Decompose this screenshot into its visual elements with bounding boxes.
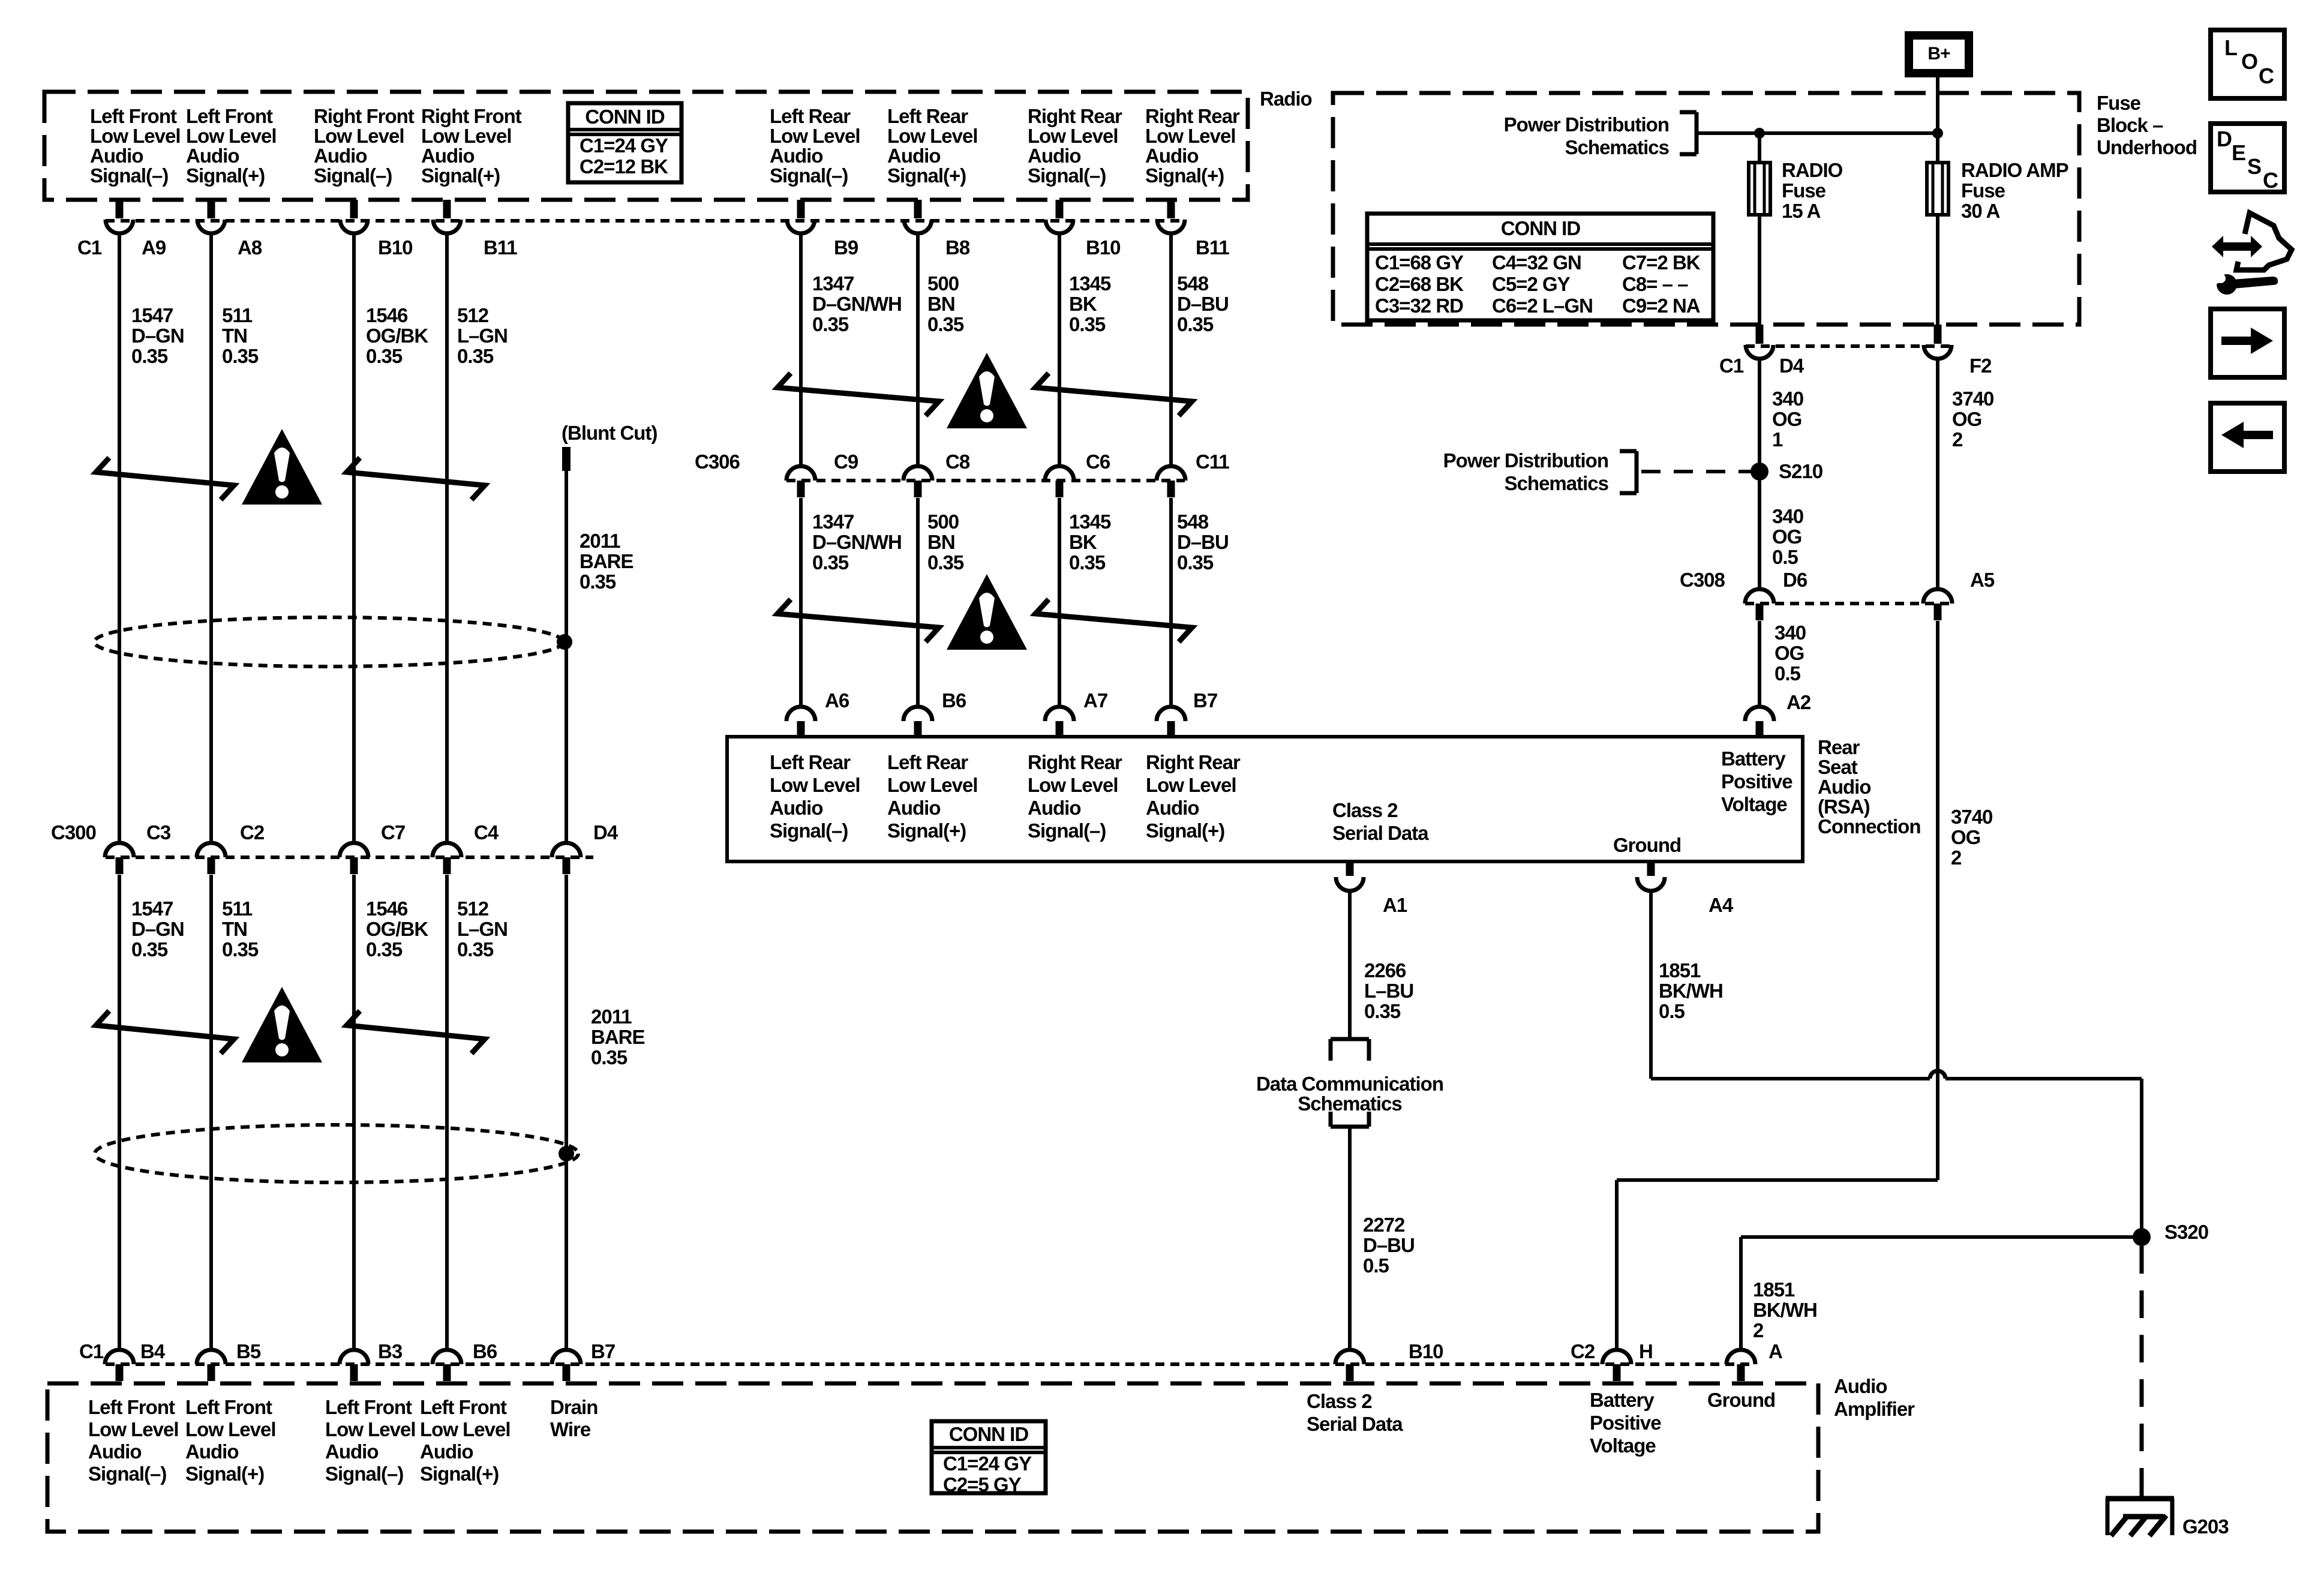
svg-text:1345: 1345 [1069, 511, 1111, 533]
svg-text:C1: C1 [1719, 355, 1744, 377]
svg-text:OG: OG [1952, 408, 1981, 430]
svg-text:Serial Data: Serial Data [1332, 822, 1429, 844]
svg-text:B7: B7 [591, 1340, 615, 1362]
svg-text:Low Level: Low Level [186, 125, 277, 147]
svg-text:C7=2 BK: C7=2 BK [1622, 251, 1701, 274]
svg-text:Audio: Audio [420, 1440, 473, 1463]
svg-text:Low Level: Low Level [420, 1418, 511, 1440]
svg-text:0.35: 0.35 [131, 345, 168, 367]
svg-text:Positive: Positive [1721, 770, 1792, 792]
svg-text:Left Front: Left Front [186, 105, 273, 127]
svg-text:D–GN/WH: D–GN/WH [812, 531, 902, 553]
svg-text:BARE: BARE [591, 1026, 645, 1048]
svg-text:2011: 2011 [580, 530, 620, 552]
svg-text:C2: C2 [1571, 1340, 1595, 1362]
svg-text:Block –: Block – [2097, 114, 2163, 136]
svg-text:Signal(–): Signal(–) [1028, 164, 1106, 187]
svg-text:Drain: Drain [550, 1396, 597, 1418]
svg-text:Fuse: Fuse [2097, 92, 2141, 114]
svg-text:L–GN: L–GN [457, 325, 508, 347]
svg-text:B10: B10 [378, 236, 413, 259]
svg-text:Audio: Audio [1818, 776, 1870, 798]
svg-text:30 A: 30 A [1961, 200, 2000, 222]
svg-text:Schematics: Schematics [1565, 136, 1669, 158]
svg-text:D–GN: D–GN [131, 325, 184, 347]
svg-text:D6: D6 [1783, 569, 1807, 591]
svg-text:O: O [2241, 49, 2257, 74]
svg-text:Signal(+): Signal(+) [186, 164, 265, 187]
svg-text:0.35: 0.35 [812, 551, 849, 574]
svg-text:Signal(+): Signal(+) [421, 164, 500, 187]
svg-text:512: 512 [457, 897, 489, 920]
svg-text:Audio: Audio [185, 1440, 238, 1463]
svg-text:Signal(+): Signal(+) [887, 164, 966, 187]
svg-text:Voltage: Voltage [1721, 793, 1787, 815]
svg-text:C7: C7 [381, 821, 405, 843]
svg-text:Voltage: Voltage [1590, 1434, 1656, 1457]
svg-text:Right Front: Right Front [421, 105, 522, 127]
svg-text:2: 2 [1951, 846, 1962, 869]
svg-text:BN: BN [927, 531, 955, 553]
svg-text:C300: C300 [51, 821, 96, 843]
svg-text:Audio: Audio [887, 797, 940, 819]
svg-text:Low Level: Low Level [325, 1418, 416, 1440]
svg-text:D–GN/WH: D–GN/WH [812, 293, 902, 315]
svg-text:1547: 1547 [131, 304, 173, 326]
svg-text:Wire: Wire [550, 1418, 591, 1440]
svg-text:A7: A7 [1083, 689, 1107, 712]
svg-text:1345: 1345 [1069, 272, 1111, 295]
svg-text:CONN ID: CONN ID [585, 106, 665, 128]
svg-text:Battery: Battery [1590, 1389, 1655, 1411]
svg-text:BK/WH: BK/WH [1753, 1299, 1817, 1321]
svg-text:2272: 2272 [1363, 1214, 1405, 1236]
svg-text:0.35: 0.35 [1177, 551, 1214, 574]
svg-text:L–BU: L–BU [1364, 980, 1413, 1002]
svg-text:0.35: 0.35 [591, 1046, 627, 1068]
svg-text:Right Front: Right Front [314, 105, 415, 127]
svg-text:S210: S210 [1779, 460, 1822, 482]
svg-text:OG: OG [1772, 526, 1801, 548]
svg-text:Low Level: Low Level [314, 125, 404, 147]
svg-text:Schematics: Schematics [1298, 1092, 1401, 1115]
svg-text:C8= – –: C8= – – [1622, 273, 1688, 295]
svg-text:500: 500 [927, 272, 959, 295]
svg-text:B11: B11 [484, 236, 517, 259]
svg-text:G203: G203 [2182, 1515, 2229, 1538]
svg-text:B7: B7 [1193, 689, 1217, 712]
svg-text:Low Level: Low Level [185, 1418, 276, 1440]
svg-text:Low Level: Low Level [1028, 125, 1118, 147]
svg-text:Low Level: Low Level [1145, 125, 1236, 147]
svg-text:Signal(+): Signal(+) [1145, 164, 1224, 187]
svg-text:C4=32 GN: C4=32 GN [1492, 251, 1581, 274]
svg-text:A9: A9 [142, 236, 166, 259]
svg-text:Right Rear: Right Rear [1028, 105, 1122, 127]
svg-text:C3: C3 [146, 821, 171, 843]
svg-text:C8: C8 [945, 451, 970, 473]
svg-text:0.35: 0.35 [131, 938, 168, 960]
svg-text:C2=5 GY: C2=5 GY [943, 1473, 1022, 1496]
svg-text:548: 548 [1177, 272, 1209, 295]
svg-text:2266: 2266 [1364, 959, 1406, 981]
svg-text:511: 511 [222, 304, 253, 326]
svg-text:B6: B6 [473, 1340, 497, 1362]
svg-text:C1=24 GY: C1=24 GY [580, 134, 668, 157]
svg-text:D4: D4 [1779, 355, 1804, 377]
svg-text:D–BU: D–BU [1177, 531, 1229, 553]
svg-text:Audio: Audio [770, 145, 822, 167]
svg-text:Signal(+): Signal(+) [887, 819, 966, 842]
svg-text:Audio: Audio [88, 1440, 141, 1463]
svg-text:S320: S320 [2164, 1221, 2208, 1243]
svg-text:548: 548 [1177, 511, 1209, 533]
svg-text:511: 511 [222, 897, 253, 920]
svg-text:OG/BK: OG/BK [366, 325, 428, 347]
svg-text:F2: F2 [1969, 355, 1992, 377]
svg-text:340: 340 [1772, 388, 1803, 410]
svg-text:1851: 1851 [1659, 959, 1701, 981]
svg-text:Audio: Audio [314, 145, 367, 167]
svg-text:Low Level: Low Level [887, 125, 978, 147]
svg-text:A2: A2 [1786, 691, 1811, 713]
svg-text:Fuse: Fuse [1961, 179, 2005, 202]
svg-text:1: 1 [1772, 428, 1783, 451]
svg-text:Audio: Audio [1028, 797, 1080, 819]
svg-text:A4: A4 [1709, 894, 1734, 916]
svg-text:1547: 1547 [131, 897, 173, 920]
svg-text:340: 340 [1774, 622, 1806, 644]
svg-text:Audio: Audio [421, 145, 474, 167]
svg-text:B9: B9 [834, 236, 858, 259]
svg-text:Radio: Radio [1260, 88, 1312, 110]
svg-text:1347: 1347 [812, 511, 854, 533]
svg-text:1347: 1347 [812, 272, 854, 295]
svg-text:Seat: Seat [1818, 756, 1858, 778]
svg-text:D–GN: D–GN [131, 918, 184, 940]
svg-text:Signal(–): Signal(–) [325, 1463, 403, 1485]
svg-text:Fuse: Fuse [1782, 179, 1826, 202]
svg-text:C306: C306 [695, 451, 740, 473]
svg-text:2: 2 [1753, 1319, 1764, 1341]
svg-text:OG/BK: OG/BK [366, 918, 428, 940]
svg-text:Signal(–): Signal(–) [770, 164, 848, 187]
svg-text:Ground: Ground [1613, 834, 1681, 856]
svg-text:C4: C4 [474, 821, 499, 843]
svg-text:2011: 2011 [591, 1005, 632, 1028]
svg-text:500: 500 [927, 511, 959, 533]
svg-text:Audio: Audio [887, 145, 940, 167]
svg-text:Rear: Rear [1818, 736, 1860, 758]
svg-text:BK: BK [1069, 531, 1097, 553]
svg-text:BARE: BARE [580, 550, 633, 572]
svg-text:Audio: Audio [186, 145, 239, 167]
svg-text:Low Level: Low Level [421, 125, 512, 147]
svg-text:C6=2 L–GN: C6=2 L–GN [1492, 295, 1593, 317]
svg-text:0.35: 0.35 [1364, 1000, 1401, 1022]
svg-text:0.35: 0.35 [927, 551, 964, 574]
svg-text:Low Level: Low Level [770, 774, 860, 796]
svg-text:A5: A5 [1970, 569, 1995, 591]
svg-text:B10: B10 [1409, 1340, 1443, 1362]
svg-text:2: 2 [1952, 428, 1963, 451]
svg-text:S: S [2247, 154, 2261, 179]
svg-text:BK/WH: BK/WH [1659, 980, 1723, 1002]
svg-text:BK: BK [1069, 293, 1097, 315]
svg-text:B10: B10 [1086, 236, 1121, 259]
svg-text:0.35: 0.35 [1069, 313, 1106, 335]
svg-text:TN: TN [222, 918, 247, 940]
svg-text:Low Level: Low Level [1146, 774, 1236, 796]
svg-text:Low Level: Low Level [1028, 774, 1118, 796]
svg-text:Low Level: Low Level [90, 125, 181, 147]
svg-text:Left Rear: Left Rear [770, 751, 851, 773]
svg-text:RADIO AMP: RADIO AMP [1961, 159, 2068, 181]
svg-text:0.35: 0.35 [580, 571, 616, 593]
svg-text:D–BU: D–BU [1177, 293, 1229, 315]
svg-text:L: L [2224, 35, 2237, 60]
svg-text:Left Rear: Left Rear [770, 105, 851, 127]
svg-text:Class 2: Class 2 [1332, 799, 1398, 821]
svg-text:0.35: 0.35 [457, 938, 494, 960]
svg-text:Signal(+): Signal(+) [420, 1463, 499, 1485]
svg-text:0.35: 0.35 [1177, 313, 1214, 335]
svg-text:Left Front: Left Front [90, 105, 177, 127]
svg-text:E: E [2232, 140, 2245, 165]
svg-text:L–GN: L–GN [457, 918, 508, 940]
svg-text:C: C [2259, 64, 2274, 88]
svg-text:C5=2 GY: C5=2 GY [1492, 273, 1571, 295]
svg-text:H: H [1639, 1340, 1653, 1362]
svg-text:Signal(–): Signal(–) [90, 164, 168, 187]
svg-text:C2=68 BK: C2=68 BK [1375, 273, 1464, 295]
svg-text:Left Front: Left Front [185, 1396, 272, 1418]
svg-text:C11: C11 [1196, 451, 1229, 473]
svg-text:RADIO: RADIO [1782, 159, 1843, 181]
svg-text:C2=12 BK: C2=12 BK [580, 155, 668, 178]
svg-text:C1: C1 [77, 236, 102, 259]
svg-text:OG: OG [1951, 826, 1980, 848]
svg-text:C9: C9 [834, 451, 858, 473]
svg-text:Signal(–): Signal(–) [1028, 819, 1106, 842]
svg-text:B11: B11 [1196, 236, 1229, 259]
svg-text:Audio: Audio [1145, 145, 1198, 167]
svg-text:OG: OG [1774, 642, 1804, 664]
svg-text:CONN ID: CONN ID [949, 1423, 1029, 1445]
svg-text:B5: B5 [236, 1340, 261, 1362]
svg-text:Low Level: Low Level [88, 1418, 179, 1440]
svg-text:TN: TN [222, 325, 247, 347]
svg-text:Positive: Positive [1590, 1412, 1661, 1434]
svg-text:Right Rear: Right Rear [1145, 105, 1240, 127]
svg-text:B3: B3 [378, 1340, 403, 1362]
svg-text:0.35: 0.35 [222, 345, 259, 367]
svg-text:Right Rear: Right Rear [1146, 751, 1241, 773]
svg-text:0.35: 0.35 [927, 313, 964, 335]
svg-text:Left Rear: Left Rear [887, 751, 968, 773]
svg-text:512: 512 [457, 304, 489, 326]
svg-text:1546: 1546 [366, 304, 408, 326]
svg-text:340: 340 [1772, 505, 1803, 527]
svg-text:0.5: 0.5 [1774, 662, 1801, 685]
svg-text:Signal(+): Signal(+) [185, 1463, 264, 1485]
svg-text:(Blunt Cut): (Blunt Cut) [562, 422, 657, 444]
svg-text:A6: A6 [825, 689, 849, 712]
svg-text:Serial Data: Serial Data [1307, 1413, 1403, 1435]
svg-text:Audio: Audio [325, 1440, 378, 1463]
svg-text:0.5: 0.5 [1659, 1000, 1685, 1022]
svg-text:Amplifier: Amplifier [1834, 1398, 1915, 1420]
svg-text:C1=68 GY: C1=68 GY [1375, 251, 1464, 274]
svg-text:Audio: Audio [770, 797, 822, 819]
svg-text:(RSA): (RSA) [1818, 795, 1870, 818]
svg-text:Connection: Connection [1818, 815, 1920, 837]
svg-text:Power Distribution: Power Distribution [1504, 113, 1669, 136]
svg-text:Audio: Audio [1834, 1375, 1887, 1397]
svg-text:Schematics: Schematics [1505, 472, 1608, 494]
svg-text:C3=32 RD: C3=32 RD [1375, 295, 1463, 317]
svg-text:CONN ID: CONN ID [1501, 217, 1581, 239]
svg-text:A8: A8 [238, 236, 262, 259]
svg-text:C1: C1 [79, 1340, 104, 1362]
svg-text:C1=24 GY: C1=24 GY [943, 1452, 1032, 1475]
svg-text:0.35: 0.35 [1069, 551, 1106, 574]
svg-text:1546: 1546 [366, 897, 408, 920]
svg-text:3740: 3740 [1951, 806, 1992, 828]
svg-text:Left Front: Left Front [88, 1396, 175, 1418]
svg-text:0.35: 0.35 [366, 345, 403, 367]
svg-text:Signal(–): Signal(–) [770, 819, 848, 842]
svg-text:A1: A1 [1383, 894, 1407, 916]
svg-text:Underhood: Underhood [2097, 136, 2197, 158]
svg-text:C2: C2 [240, 821, 265, 843]
svg-text:15 A: 15 A [1782, 200, 1821, 222]
svg-text:B6: B6 [942, 689, 966, 712]
svg-text:Signal(–): Signal(–) [88, 1463, 166, 1485]
svg-text:0.35: 0.35 [366, 938, 403, 960]
svg-text:Signal(–): Signal(–) [314, 164, 392, 187]
svg-text:3740: 3740 [1952, 388, 1993, 410]
svg-text:B8: B8 [945, 236, 970, 259]
svg-text:D: D [2217, 127, 2232, 151]
svg-text:Left Front: Left Front [325, 1396, 412, 1418]
svg-text:Data Communication: Data Communication [1256, 1073, 1443, 1095]
svg-text:C6: C6 [1086, 451, 1110, 473]
svg-text:D–BU: D–BU [1363, 1234, 1415, 1256]
svg-text:Right Rear: Right Rear [1028, 751, 1122, 773]
svg-text:D4: D4 [593, 821, 618, 843]
svg-text:0.5: 0.5 [1772, 546, 1798, 568]
svg-text:B4: B4 [140, 1340, 166, 1362]
svg-text:Class 2: Class 2 [1307, 1390, 1372, 1412]
svg-text:0.35: 0.35 [222, 938, 259, 960]
svg-text:Left Front: Left Front [420, 1396, 507, 1418]
svg-text:C: C [2263, 168, 2278, 193]
svg-text:Audio: Audio [1146, 797, 1199, 819]
svg-text:Left Rear: Left Rear [887, 105, 968, 127]
svg-text:1851: 1851 [1753, 1278, 1795, 1301]
svg-text:OG: OG [1772, 408, 1801, 430]
svg-text:Battery: Battery [1721, 748, 1786, 770]
svg-text:Signal(+): Signal(+) [1146, 819, 1224, 842]
svg-text:Audio: Audio [90, 145, 143, 167]
svg-text:Audio: Audio [1028, 145, 1080, 167]
svg-text:C308: C308 [1680, 569, 1725, 591]
svg-text:BN: BN [927, 293, 955, 315]
svg-text:B+: B+ [1927, 44, 1950, 64]
svg-text:0.35: 0.35 [812, 313, 849, 335]
svg-text:A: A [1768, 1340, 1782, 1362]
svg-text:0.5: 0.5 [1363, 1254, 1389, 1277]
svg-text:Low Level: Low Level [770, 125, 860, 147]
svg-text:Power Distribution: Power Distribution [1443, 449, 1608, 472]
svg-text:Ground: Ground [1707, 1389, 1775, 1411]
svg-text:0.35: 0.35 [457, 345, 494, 367]
svg-text:Low Level: Low Level [887, 774, 978, 796]
svg-text:C9=2 NA: C9=2 NA [1622, 295, 1700, 317]
